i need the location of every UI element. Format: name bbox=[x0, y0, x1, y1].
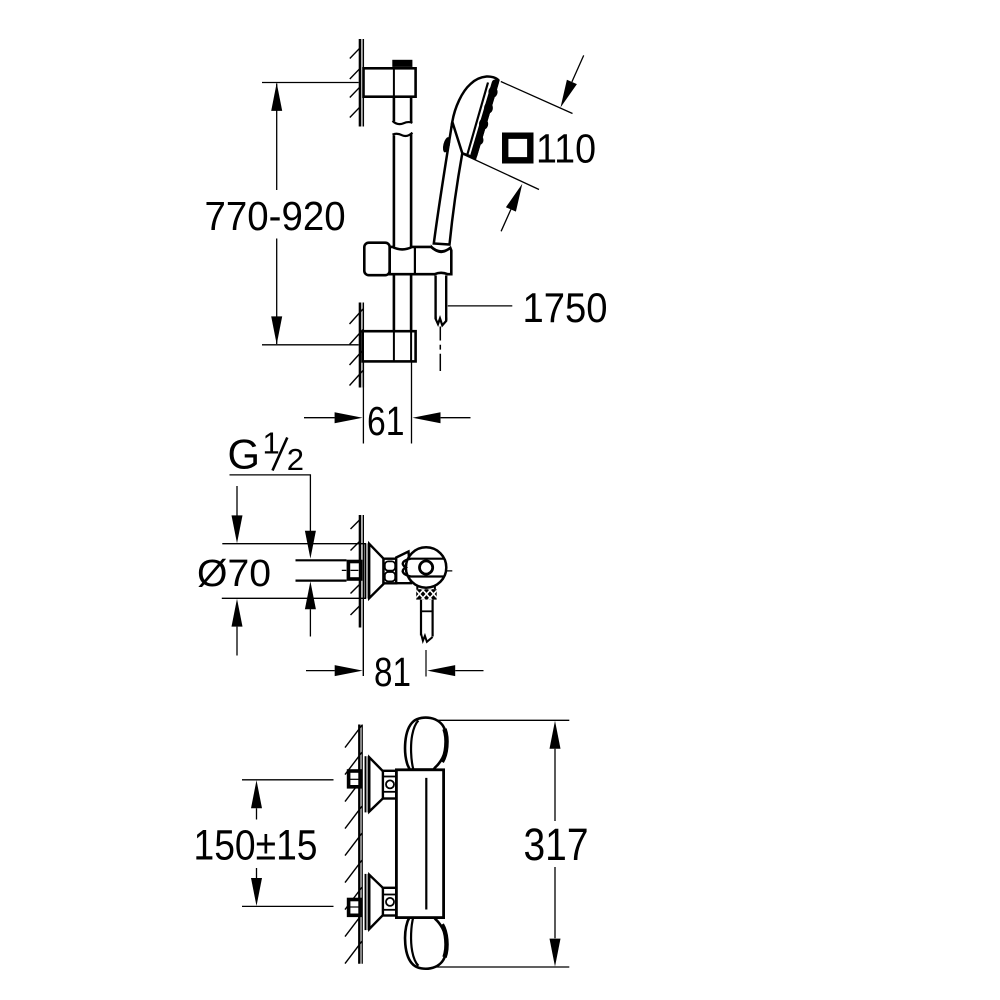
hex nut bbox=[383, 771, 397, 799]
wall bottom lines bbox=[358, 725, 360, 964]
cone bbox=[369, 757, 384, 811]
shower button bbox=[442, 136, 452, 153]
rail cap (black) bbox=[392, 60, 412, 67]
svg-text:G: G bbox=[228, 431, 261, 478]
110 upper arrow bbox=[572, 55, 584, 82]
hand shower head body bbox=[452, 76, 499, 158]
nipple bbox=[349, 771, 361, 787]
valve neck bbox=[396, 552, 411, 584]
outlet hose tear bbox=[421, 634, 433, 642]
rail right line bbox=[410, 67, 413, 360]
110 lower arrow bbox=[501, 209, 511, 231]
wall lower section lines bbox=[359, 303, 362, 388]
inner face line bbox=[468, 83, 489, 155]
rail break waves bbox=[393, 121, 413, 124]
valve chords bbox=[410, 558, 444, 560]
thermostat bottom knob (mirror) bbox=[405, 917, 447, 969]
G 1/2 leader with arrows bbox=[230, 475, 311, 531]
slider holder body bbox=[390, 247, 452, 274]
bottom wall bracket bbox=[363, 331, 416, 361]
escutcheon plate bbox=[364, 543, 366, 598]
hose break tear bbox=[436, 317, 447, 326]
crosshatched hose nut bbox=[414, 588, 439, 600]
dimension 770-920 bbox=[262, 82, 359, 84]
bottom connection group (mirror) bbox=[349, 874, 397, 930]
thermostat top knob bbox=[405, 718, 447, 770]
dimension 317 bbox=[436, 719, 570, 721]
shower hose bbox=[434, 275, 436, 319]
dimension D70 bbox=[222, 543, 366, 545]
spray nozzle band bbox=[474, 83, 495, 155]
escutcheon cone bbox=[369, 544, 383, 598]
svg-text:317: 317 bbox=[524, 819, 589, 870]
leader 1750 bbox=[448, 305, 513, 307]
svg-text:1: 1 bbox=[263, 426, 280, 461]
svg-text:770-920: 770-920 bbox=[205, 193, 346, 239]
valve head circle bbox=[406, 547, 446, 587]
svg-text:1750: 1750 bbox=[523, 284, 608, 331]
dimension 61 bbox=[362, 363, 364, 444]
top connection group bbox=[349, 756, 397, 812]
thermostat body bbox=[396, 770, 443, 918]
holder cone crescent bbox=[431, 244, 451, 253]
slider knob bbox=[364, 243, 389, 276]
hex adapter bbox=[384, 559, 397, 584]
110 upper extension line bbox=[501, 82, 573, 114]
dimension 81 bbox=[425, 650, 427, 677]
supply pipe bbox=[296, 559, 347, 561]
escutcheon plate bbox=[365, 756, 367, 812]
wall upper section lines bbox=[359, 39, 362, 127]
hand shower handle bbox=[434, 122, 463, 245]
outlet hose bbox=[420, 600, 422, 636]
dimension 150+-15 bbox=[242, 779, 334, 781]
top wall bracket bbox=[364, 68, 416, 96]
holder divider bbox=[414, 247, 416, 274]
wall middle lines bbox=[359, 515, 362, 628]
svg-text:81: 81 bbox=[374, 649, 411, 695]
lever notch bbox=[403, 559, 411, 577]
svg-text:150±15: 150±15 bbox=[194, 821, 318, 869]
110 lower extension line bbox=[462, 154, 540, 190]
svg-text:110: 110 bbox=[536, 126, 596, 172]
wall bottom hatches bbox=[345, 725, 362, 963]
centerline dashes bbox=[342, 569, 453, 572]
rail left line bbox=[393, 67, 396, 360]
dimension square 110 bbox=[505, 136, 530, 161]
wall upper hatches bbox=[350, 48, 360, 117]
wall middle hatches bbox=[351, 520, 361, 616]
svg-text:61: 61 bbox=[367, 398, 405, 444]
svg-text:2: 2 bbox=[287, 442, 304, 477]
wall lower hatches bbox=[350, 309, 364, 386]
outlet stubs bbox=[416, 586, 418, 589]
hose dash-dot continuation bbox=[439, 327, 441, 372]
square nipple bbox=[348, 562, 360, 580]
svg-text:Ø70: Ø70 bbox=[197, 553, 271, 595]
handle screw circle bbox=[420, 561, 433, 574]
